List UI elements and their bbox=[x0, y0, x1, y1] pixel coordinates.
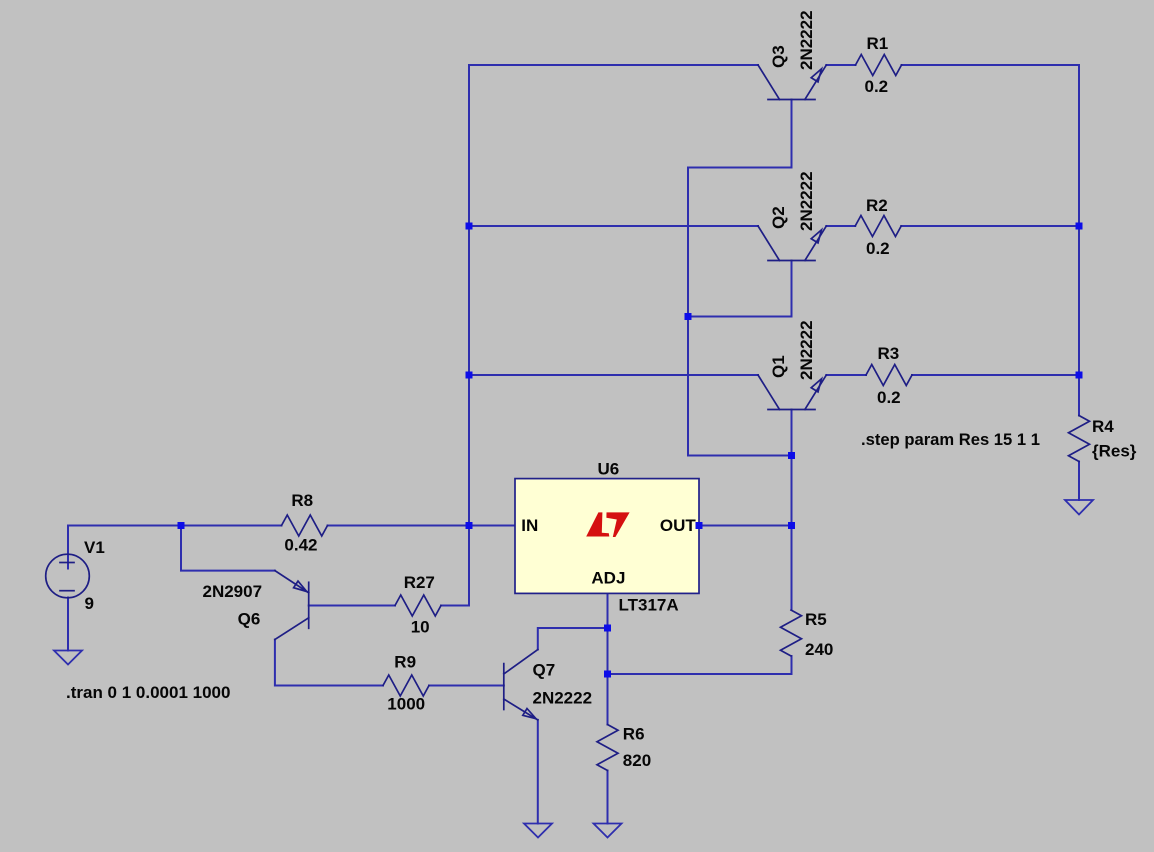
label R6 bbox=[623, 724, 645, 743]
wire: R4 bottom to ground bbox=[1078, 462, 1080, 501]
label Q6 bbox=[238, 610, 261, 629]
wire: Q2 collector wire bbox=[469, 225, 758, 227]
svg-text:R9: R9 bbox=[394, 653, 416, 672]
label R27 bbox=[404, 573, 435, 592]
label R9 bbox=[394, 653, 416, 672]
U6 LT logo bbox=[586, 512, 629, 537]
spice directive .tran bbox=[66, 683, 230, 702]
label Q1 bbox=[769, 355, 788, 378]
svg-text:R27: R27 bbox=[404, 573, 435, 592]
svg-text:1000: 1000 bbox=[387, 695, 425, 714]
svg-text:R3: R3 bbox=[878, 344, 900, 363]
value 0.42 of R8 bbox=[284, 536, 317, 555]
svg-text:820: 820 bbox=[623, 751, 651, 770]
wire: R3 to right rail bbox=[912, 374, 1079, 376]
label Q7 bbox=[533, 661, 556, 680]
svg-text:2N2222: 2N2222 bbox=[797, 320, 816, 380]
label 2N2222 of Q7 bbox=[533, 689, 593, 708]
wire: Q3 base down and over to base bus bbox=[688, 100, 792, 168]
wire: ADJ pin line down through nodes to R6 bbox=[607, 593, 609, 724]
resistor R27 bbox=[395, 595, 441, 616]
node: junction ADJ / Q7 collector bbox=[604, 625, 611, 632]
svg-text:IN: IN bbox=[521, 516, 538, 535]
wire: Q1 base down to node bbox=[791, 410, 793, 456]
wire: R27 right lead up to IN node bbox=[441, 605, 469, 607]
wire: Q7 collector up and to ADJ line bbox=[538, 628, 608, 650]
svg-text:V1: V1 bbox=[84, 538, 105, 557]
wire: R9 right lead to Q7 base bbox=[429, 685, 504, 687]
pin label OUT bbox=[660, 516, 697, 535]
label V1 bbox=[84, 538, 105, 557]
wire: Q6 base to R27 bbox=[309, 605, 395, 607]
node: junction OUT pin bbox=[696, 522, 703, 529]
node: junction output rail / base bus bbox=[788, 452, 795, 459]
transistor Q3 bbox=[758, 65, 826, 100]
wire: top rail from left column to Q3 collector bbox=[469, 64, 758, 66]
wire: R6 bottom to ground bbox=[607, 771, 609, 824]
svg-text:2N2222: 2N2222 bbox=[533, 689, 593, 708]
value {Res} of R4 bbox=[1092, 442, 1137, 461]
value 1000 of R9 bbox=[387, 695, 425, 714]
label R2 bbox=[866, 196, 888, 215]
wire: Q3 emitter to R1 bbox=[826, 64, 855, 66]
wire: node A down to Q6 emitter bbox=[181, 526, 275, 571]
node: junction right rail / R2 bbox=[1076, 223, 1083, 230]
svg-text:0.2: 0.2 bbox=[877, 388, 901, 407]
svg-text:0.2: 0.2 bbox=[865, 77, 889, 96]
label R3 bbox=[878, 344, 900, 363]
svg-text:R5: R5 bbox=[805, 610, 827, 629]
label Q3 bbox=[769, 45, 788, 68]
wire: R1 to right rail bbox=[902, 64, 1080, 66]
svg-text:ADJ: ADJ bbox=[591, 568, 625, 587]
resistor R2 bbox=[855, 216, 901, 237]
voltage source V1 bbox=[46, 554, 90, 598]
label R4 bbox=[1092, 417, 1114, 436]
svg-text:Q2: Q2 bbox=[769, 206, 788, 229]
node: junction output rail / OUT wire bbox=[788, 522, 795, 529]
resistor R9 bbox=[383, 675, 429, 696]
transistor Q7 bbox=[504, 650, 538, 720]
svg-text:9: 9 bbox=[85, 594, 94, 613]
transistor Q1 bbox=[758, 375, 826, 410]
ground (below V1) bbox=[54, 651, 82, 665]
ground (below R4) bbox=[1065, 500, 1093, 515]
node: junction IN bbox=[466, 522, 473, 529]
svg-text:LT317A: LT317A bbox=[619, 596, 679, 615]
resistor R6 bbox=[597, 725, 618, 771]
svg-text:2N2222: 2N2222 bbox=[797, 10, 816, 70]
value 0.2 of R1 bbox=[865, 77, 889, 96]
wire: base bus bottom to output node bbox=[688, 455, 792, 457]
resistor R4 bbox=[1069, 416, 1090, 462]
ground (below R6) bbox=[594, 824, 622, 838]
svg-text:Q7: Q7 bbox=[533, 661, 556, 680]
svg-text:Q3: Q3 bbox=[769, 45, 788, 68]
svg-text:10: 10 bbox=[411, 618, 430, 637]
svg-text:.tran 0 1 0.0001 1000: .tran 0 1 0.0001 1000 bbox=[66, 683, 230, 702]
svg-text:{Res}: {Res} bbox=[1092, 442, 1137, 461]
wire: base bus vertical x=688 bbox=[687, 168, 689, 456]
label 2N2222 of Q2 bbox=[797, 171, 816, 231]
label R8 bbox=[291, 491, 313, 510]
label R1 bbox=[867, 34, 889, 53]
pin label ADJ bbox=[591, 568, 625, 587]
transistor Q2 bbox=[758, 226, 826, 261]
wire: V1 top to R8 node bbox=[68, 526, 282, 569]
value 10 of R27 bbox=[411, 618, 430, 637]
label U6 bbox=[598, 460, 620, 479]
wire: IN pin wire bbox=[469, 525, 515, 527]
label 2N2222 of Q3 bbox=[797, 10, 816, 70]
wire: R8 right lead to IN node bbox=[328, 525, 470, 527]
svg-text:2N2222: 2N2222 bbox=[797, 171, 816, 231]
svg-text:Q1: Q1 bbox=[769, 355, 788, 378]
transistor Q6 bbox=[275, 571, 309, 640]
node: junction left rail / Q1 collector bbox=[466, 372, 473, 379]
value 820 of R6 bbox=[623, 751, 651, 770]
value 0.2 of R3 bbox=[877, 388, 901, 407]
pin label IN bbox=[521, 516, 538, 535]
svg-text:0.2: 0.2 bbox=[866, 239, 890, 258]
wire: OUT pin to output rail bbox=[699, 525, 792, 527]
wire: Q1 collector wire bbox=[469, 374, 758, 376]
label 2N2907 of Q6 bbox=[203, 582, 263, 601]
svg-text:OUT: OUT bbox=[660, 516, 697, 535]
svg-text:U6: U6 bbox=[598, 460, 620, 479]
ground (below Q7 emitter) bbox=[524, 824, 552, 838]
value 0.2 of R2 bbox=[866, 239, 890, 258]
svg-text:R2: R2 bbox=[866, 196, 888, 215]
wire: right output rail vertical x=1079 bbox=[1078, 65, 1080, 416]
svg-text:Q6: Q6 bbox=[238, 610, 261, 629]
node: junction right rail / R3 bbox=[1076, 372, 1083, 379]
op-amp U6 regulator body LT317A bbox=[515, 479, 699, 594]
svg-text:R6: R6 bbox=[623, 724, 645, 743]
svg-text:R4: R4 bbox=[1092, 417, 1114, 436]
wire: Q7 emitter down to ground bbox=[537, 720, 539, 824]
wire: R5 bottom to ADJ node bbox=[608, 656, 792, 674]
svg-text:2N2907: 2N2907 bbox=[203, 582, 263, 601]
resistor R8 bbox=[282, 515, 328, 536]
wire: V1 bottom to ground bbox=[67, 598, 69, 651]
node: junction base bus Q2 bbox=[685, 313, 692, 320]
label R5 bbox=[805, 610, 827, 629]
label Q2 bbox=[769, 206, 788, 229]
svg-text:240: 240 bbox=[805, 640, 833, 659]
wire: output rail from base node down to R5 bbox=[791, 456, 793, 611]
value 9 of V1 bbox=[85, 594, 94, 613]
svg-text:0.42: 0.42 bbox=[284, 536, 317, 555]
node: junction V1/R8/Q6 bbox=[178, 522, 185, 529]
value 240 of R5 bbox=[805, 640, 833, 659]
label LT317A bbox=[619, 596, 679, 615]
wire: Q2 base down and over to base bus bbox=[688, 261, 792, 317]
wire: R2 to right rail bbox=[901, 225, 1079, 227]
wire: left input rail vertical x=469 bbox=[468, 65, 470, 606]
resistor R5 bbox=[781, 610, 802, 656]
node: junction ADJ / R5 return bbox=[604, 671, 611, 678]
resistor R3 bbox=[866, 365, 912, 386]
svg-text:.step param Res 15 1 1: .step param Res 15 1 1 bbox=[861, 430, 1040, 449]
wire: Q6 collector down and to R9 bbox=[275, 640, 383, 686]
svg-text:R8: R8 bbox=[291, 491, 313, 510]
wire: Q1 emitter to R3 bbox=[826, 374, 866, 376]
resistor R1 bbox=[856, 55, 902, 76]
spice directive .step bbox=[861, 430, 1040, 449]
wire: Q2 emitter to R2 bbox=[826, 225, 855, 227]
svg-text:R1: R1 bbox=[867, 34, 889, 53]
label 2N2222 of Q1 bbox=[797, 320, 816, 380]
node: junction left rail / Q2 collector bbox=[466, 223, 473, 230]
